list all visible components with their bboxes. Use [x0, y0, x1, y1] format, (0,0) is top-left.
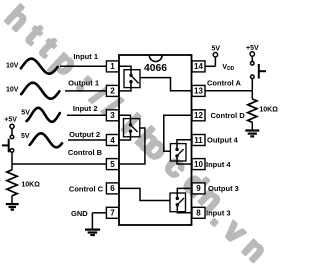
svg-text:5: 5 — [110, 160, 115, 169]
svg-text:2: 2 — [110, 87, 115, 96]
svg-text:7: 7 — [110, 209, 115, 218]
svg-text:Output 4: Output 4 — [207, 135, 239, 144]
svg-text:13: 13 — [194, 87, 203, 96]
svg-text:Control B: Control B — [68, 148, 103, 157]
svg-text:Input 4: Input 4 — [206, 160, 231, 169]
svg-text:10KΩ: 10KΩ — [21, 182, 40, 189]
svg-text:10V: 10V — [6, 62, 19, 69]
svg-text:10: 10 — [194, 160, 203, 169]
svg-text:VDD: VDD — [222, 64, 234, 72]
svg-text:1: 1 — [110, 62, 115, 71]
svg-text:4066: 4066 — [144, 63, 167, 74]
svg-text:5V: 5V — [212, 46, 221, 53]
svg-text:+5V: +5V — [246, 45, 259, 52]
svg-text:+5V: +5V — [4, 116, 17, 123]
svg-text:5V: 5V — [21, 133, 30, 140]
svg-text:4: 4 — [110, 136, 115, 145]
svg-text:Control D: Control D — [211, 111, 246, 120]
svg-text:Output 1: Output 1 — [68, 78, 99, 87]
svg-text:11: 11 — [194, 136, 203, 145]
svg-text:Output 3: Output 3 — [208, 184, 239, 193]
svg-text:12: 12 — [194, 111, 203, 120]
svg-text:Control C: Control C — [69, 184, 104, 193]
svg-text:14: 14 — [194, 62, 203, 71]
svg-text:GND: GND — [71, 209, 88, 218]
svg-text:8: 8 — [196, 209, 201, 218]
svg-text:Input 1: Input 1 — [73, 52, 98, 61]
svg-text:5V: 5V — [21, 110, 30, 117]
svg-text:3: 3 — [110, 111, 115, 120]
svg-text:Control A: Control A — [207, 79, 241, 88]
svg-text:10KΩ: 10KΩ — [259, 107, 278, 114]
svg-text:6: 6 — [110, 184, 115, 193]
svg-text:9: 9 — [196, 184, 201, 193]
svg-text:10V: 10V — [6, 87, 19, 94]
svg-text:Input 2: Input 2 — [73, 104, 98, 113]
svg-text:Output 2: Output 2 — [69, 130, 100, 139]
svg-text:Input 3: Input 3 — [206, 209, 231, 218]
